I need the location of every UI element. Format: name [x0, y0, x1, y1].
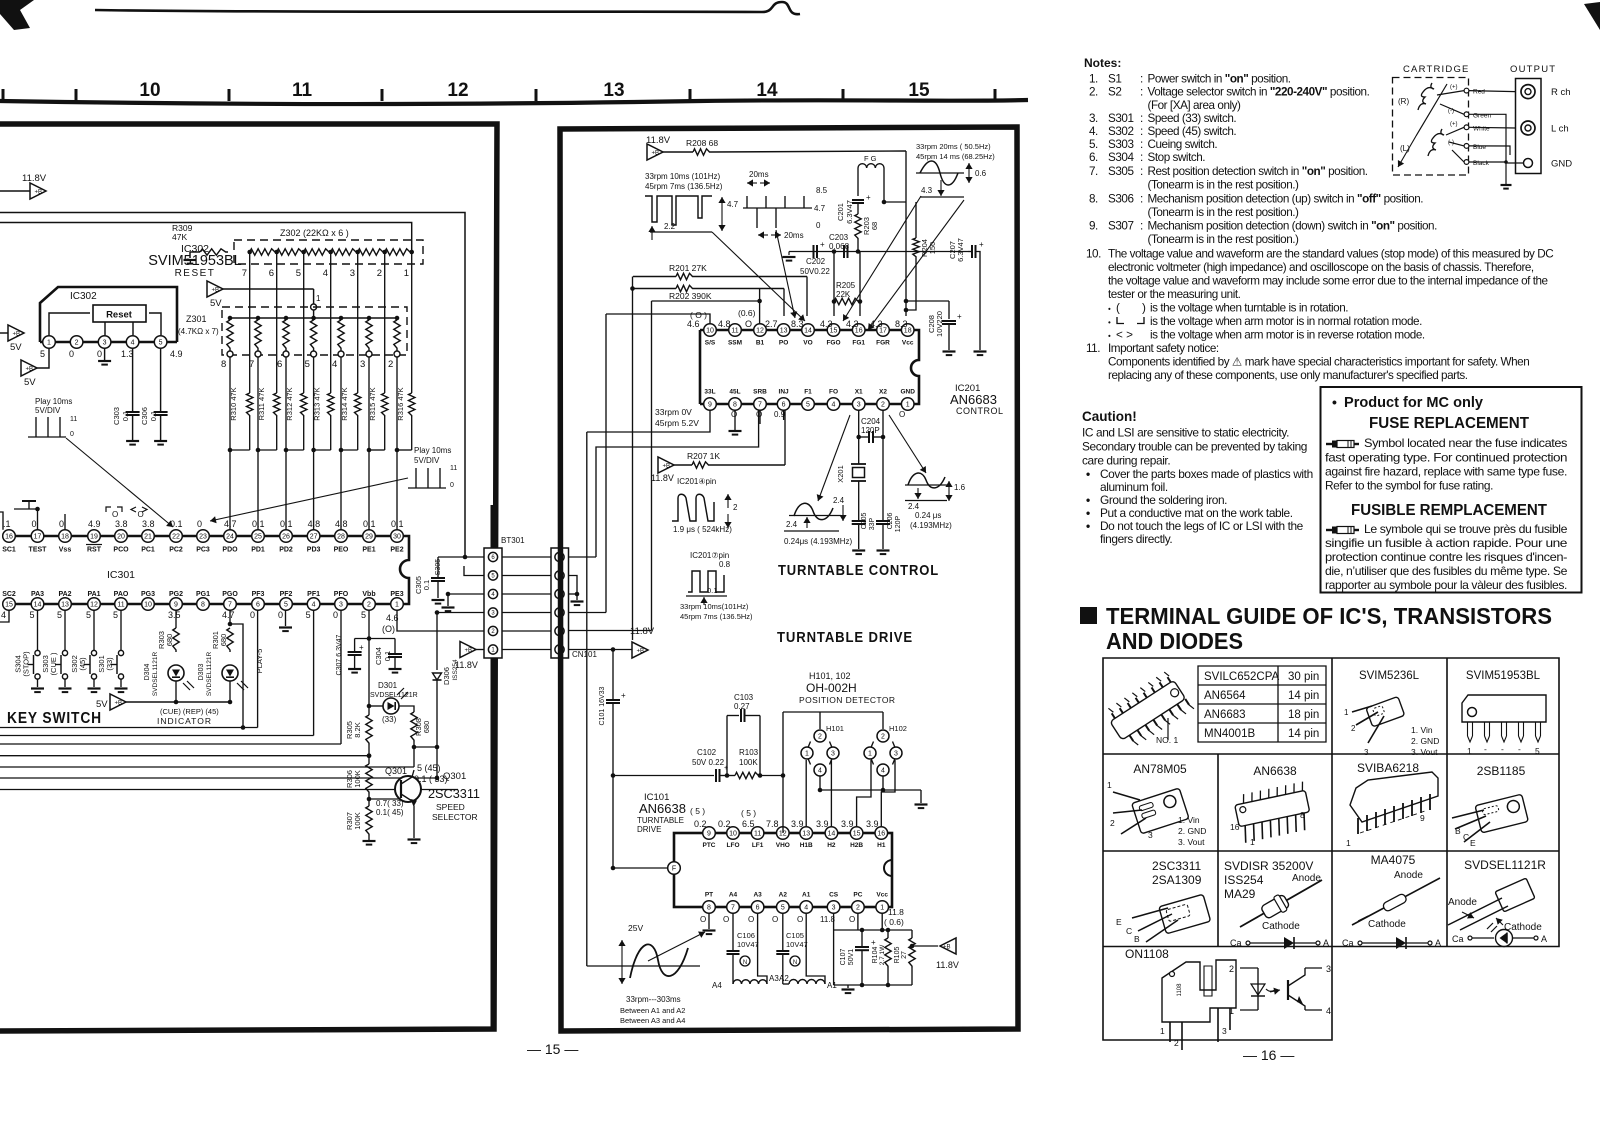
svg-text:fingers directly.: fingers directly.	[1100, 532, 1172, 546]
svg-text:Refer to the symbol for fuse r: Refer to the symbol for fuse rating.	[1325, 479, 1493, 493]
IC201 AN6683 turntable control IC body	[700, 329, 908, 332]
svg-text:2.4: 2.4	[833, 496, 845, 505]
svg-text:PE3: PE3	[390, 591, 403, 598]
IC201 pin 10 (S/S)	[704, 324, 717, 337]
IC101 pin 7 (A4)	[727, 901, 740, 914]
svg-text:Between A1 and A2: Between A1 and A2	[620, 1006, 685, 1015]
svg-text:Green: Green	[1473, 112, 1491, 119]
svg-text:R103: R103	[739, 748, 759, 757]
svg-text:AN6564: AN6564	[1204, 690, 1246, 702]
IC201 pin 8 (45L)	[729, 398, 742, 411]
thick cable (BT301)	[491, 505, 496, 548]
svg-text:3: 3	[1326, 964, 1331, 974]
svg-text:BT301: BT301	[501, 536, 525, 545]
IC301 pin 14 (PA3)	[31, 598, 44, 611]
svg-text:4: 4	[1326, 1006, 1331, 1016]
svg-text:20: 20	[117, 534, 125, 541]
svg-text:2: 2	[1174, 1038, 1179, 1048]
IC101 pin 14 (H2)	[825, 827, 838, 840]
pointer line	[818, 415, 850, 501]
svg-text::: :	[1140, 165, 1143, 178]
svg-text:H101: H101	[826, 724, 844, 733]
svg-text:5: 5	[57, 610, 62, 620]
svg-text:2SC3311: 2SC3311	[428, 786, 480, 801]
svg-text:9: 9	[707, 831, 711, 838]
svg-text::: :	[1140, 138, 1143, 151]
svg-text:AN6683: AN6683	[1204, 709, 1246, 721]
cartridge coil R	[1418, 83, 1434, 110]
IC301 pin 23 (PC3)	[197, 530, 210, 543]
svg-text:0: 0	[816, 221, 821, 230]
svg-text:SRB: SRB	[753, 389, 767, 396]
svg-text:SELECTOR: SELECTOR	[432, 812, 478, 822]
IC302 pin 3	[98, 336, 111, 349]
svg-text:S307: S307	[1108, 220, 1134, 233]
svg-text:3: 3	[103, 340, 107, 347]
svg-text:10V47: 10V47	[737, 940, 759, 949]
IC301 pin 4 (PF1)	[307, 598, 320, 611]
svg-text::: :	[1140, 220, 1143, 233]
svg-text:0.8: 0.8	[719, 560, 731, 569]
svg-text:0: 0	[69, 349, 74, 359]
svg-text:8.3: 8.3	[895, 319, 908, 329]
svg-text:8.3: 8.3	[791, 319, 804, 329]
svg-text:5: 5	[30, 610, 35, 620]
svg-text:23: 23	[199, 534, 207, 541]
wire	[819, 776, 821, 790]
svg-text:PE2: PE2	[390, 547, 403, 554]
svg-text:1: 1	[47, 340, 51, 347]
IC101 pin 10 (LFO)	[727, 827, 740, 840]
svg-text:F: F	[672, 866, 676, 873]
svg-text:ISS254: ISS254	[1224, 873, 1264, 887]
svg-text:3: 3	[831, 751, 835, 758]
IC201 pin 5 (F1)	[802, 398, 815, 411]
svg-text:O: O	[899, 410, 905, 419]
svg-text:N: N	[743, 960, 747, 966]
svg-text:0.7( 33): 0.7( 33)	[376, 799, 404, 808]
svg-text:C201: C201	[836, 203, 845, 221]
svg-text:PD1: PD1	[251, 547, 265, 554]
wire	[569, 556, 597, 558]
svg-text:+B: +B	[637, 649, 645, 655]
wire	[789, 251, 968, 253]
CN101 pin 4	[555, 589, 564, 598]
svg-text:0.1: 0.1	[391, 519, 404, 529]
wire	[37, 349, 49, 368]
svg-text:0: 0	[70, 431, 74, 438]
svg-text:+B: +B	[13, 332, 21, 338]
Product for MC only box	[1321, 387, 1582, 593]
svg-text:27: 27	[310, 534, 318, 541]
svg-text:CONTROL: CONTROL	[956, 406, 1004, 416]
svg-text:PFO: PFO	[334, 591, 349, 598]
svg-text:H2B: H2B	[850, 842, 863, 849]
IC201 pin 16 (FG1)	[852, 324, 865, 337]
svg-text:Q301: Q301	[385, 766, 407, 776]
svg-text:POSITION DETECTOR: POSITION DETECTOR	[799, 695, 895, 705]
svg-text:4.3: 4.3	[846, 319, 859, 329]
ruler tick	[2, 89, 5, 101]
svg-text:13: 13	[802, 831, 810, 838]
svg-text:5: 5	[305, 359, 310, 370]
CN101 pin 2	[555, 626, 564, 635]
IC302 reset box	[93, 305, 146, 322]
svg-text:(STOP): (STOP)	[22, 651, 31, 677]
svg-text:9.: 9.	[1089, 220, 1098, 233]
svg-text:3: 3	[339, 602, 343, 609]
svg-text:2: 2	[367, 602, 371, 609]
IC302 pin 4	[126, 336, 139, 349]
svg-text:electronic voltmeter (high imp: electronic voltmeter (high impedance) an…	[1108, 261, 1534, 274]
IC301 pin 6 (PF3)	[252, 598, 265, 611]
svg-text:•: •	[1108, 331, 1111, 340]
IC301 pin 29 (PE1)	[363, 530, 376, 543]
BT301 pin 4	[488, 589, 497, 598]
svg-text:SVIBA6218: SVIBA6218	[1357, 761, 1419, 775]
svg-text:11.8V: 11.8V	[455, 660, 478, 670]
IC201 pin 18 (Vcc)	[901, 324, 914, 337]
svg-text:O: O	[756, 410, 762, 419]
svg-text:30: 30	[393, 534, 401, 541]
IC201 pin 1 (GND)	[901, 398, 914, 411]
svg-text:R202 390K: R202 390K	[669, 291, 712, 301]
svg-text:+B: +B	[663, 464, 671, 470]
svg-text:INDICATOR: INDICATOR	[157, 716, 212, 726]
svg-text:S305: S305	[1108, 165, 1134, 178]
svg-text:— 16 —: — 16 —	[1243, 1047, 1294, 1063]
svg-text:INJ: INJ	[779, 389, 790, 396]
connector CN101	[551, 548, 569, 658]
svg-text:Mechanism position detection (: Mechanism position detection (down) swit…	[1148, 220, 1438, 233]
svg-text:0.24 μs: 0.24 μs	[915, 511, 941, 520]
svg-text:2.: 2.	[1089, 86, 1098, 99]
svg-text:is the voltage when turntable: is the voltage when turntable is in rota…	[1150, 301, 1348, 314]
svg-text:15: 15	[853, 831, 861, 838]
svg-text:14 pin: 14 pin	[1288, 728, 1319, 740]
svg-text:+: +	[871, 938, 876, 947]
svg-text:5: 5	[284, 602, 288, 609]
svg-text:7.: 7.	[1089, 165, 1098, 178]
ruler tick	[75, 89, 78, 101]
svg-text:PE1: PE1	[362, 547, 375, 554]
IC101 pin 6 (A3)	[751, 901, 764, 914]
wire	[613, 867, 667, 869]
svg-text:R205: R205	[836, 281, 856, 290]
wire	[569, 612, 607, 614]
opto transistor	[1287, 980, 1289, 1000]
svg-text:A4: A4	[712, 981, 722, 990]
svg-text:LFO: LFO	[727, 842, 740, 849]
svg-text::: :	[1140, 125, 1143, 138]
svg-text:(33): (33)	[105, 657, 114, 671]
svg-text:Play 10ms: Play 10ms	[414, 446, 451, 455]
wire (PE3 pin1 to BT301)	[397, 610, 484, 631]
IC301 pin 30 (PE2)	[391, 530, 404, 543]
svg-text:Power switch in "on" position.: Power switch in "on" position.	[1148, 73, 1291, 86]
output jack GND	[1524, 159, 1533, 168]
svg-text:TURNTABLE DRIVE: TURNTABLE DRIVE	[777, 629, 913, 646]
svg-text:C107: C107	[840, 949, 847, 966]
svg-text:+B: +B	[212, 288, 220, 294]
IC302 pin 5	[154, 336, 167, 349]
svg-text:Speed (45) switch.: Speed (45) switch.	[1148, 125, 1237, 138]
svg-text:MN4001B: MN4001B	[1204, 728, 1255, 740]
cartridge stylus arrow	[1416, 84, 1447, 136]
wire	[905, 151, 907, 316]
svg-text:50V 0.22: 50V 0.22	[692, 758, 725, 767]
svg-text:Vbb: Vbb	[362, 591, 375, 598]
svg-text:(4.7KΩ x 7): (4.7KΩ x 7)	[178, 327, 219, 336]
svg-text:S301: S301	[1108, 112, 1134, 125]
resistor R314 47K	[355, 393, 361, 417]
svg-text:•: •	[1086, 506, 1090, 520]
svg-text:replacing any of these compone: replacing any of these components, use o…	[1108, 369, 1468, 382]
svg-text:NO. 1: NO. 1	[1156, 735, 1178, 745]
svg-text:IC201⑦pin: IC201⑦pin	[690, 551, 729, 560]
svg-text:0: 0	[278, 610, 283, 620]
svg-text:25V: 25V	[628, 923, 643, 933]
IC301 pin 18 (Vss)	[59, 530, 72, 543]
svg-text:Red: Red	[1473, 89, 1485, 96]
svg-text:3: 3	[894, 751, 898, 758]
svg-text:F1: F1	[804, 389, 812, 396]
svg-text:10: 10	[139, 80, 160, 101]
svg-text:PF1: PF1	[307, 591, 320, 598]
svg-text:PTC: PTC	[703, 842, 716, 849]
svg-text:10: 10	[729, 831, 737, 838]
ruler tick	[228, 89, 231, 101]
svg-text:680: 680	[422, 721, 431, 734]
svg-text:11: 11	[117, 602, 124, 609]
svg-text:2SA1309: 2SA1309	[1152, 873, 1202, 887]
IC301 pin 27 (PD3)	[307, 530, 320, 543]
svg-text:TEST: TEST	[29, 547, 48, 554]
svg-text:3: 3	[857, 402, 861, 409]
svg-text:1: 1	[395, 602, 399, 609]
IC101 pin 4 (A1)	[800, 901, 813, 914]
switch S301 (33)	[120, 610, 122, 651]
svg-text:11.8V: 11.8V	[936, 960, 959, 970]
svg-text:( 0.6): ( 0.6)	[884, 917, 904, 927]
svg-text:2: 2	[733, 503, 738, 512]
svg-text:5V: 5V	[96, 699, 108, 710]
ruler tick	[535, 89, 538, 101]
svg-text:is the voltage when arm motor: is the voltage when arm motor is in norm…	[1150, 315, 1422, 328]
IC301 pin 5 (PF2)	[280, 598, 293, 611]
IC101 pin 12 (VHO)	[777, 827, 790, 840]
svg-text:AN78M05: AN78M05	[1133, 762, 1187, 776]
IC101 pin 3 (CS)	[827, 901, 840, 914]
svg-text:R105: R105	[894, 947, 901, 964]
svg-text:1: 1	[1160, 1026, 1165, 1036]
svg-text:14: 14	[804, 328, 812, 335]
svg-text:1.3: 1.3	[121, 349, 134, 359]
svg-text:(For [XA] area only): (For [XA] area only)	[1148, 99, 1242, 112]
wire (PFO pin3)	[340, 610, 342, 744]
svg-text::: :	[1140, 112, 1143, 125]
svg-text:22: 22	[172, 534, 180, 541]
svg-text:Anode: Anode	[1394, 870, 1423, 881]
part number table	[1198, 666, 1326, 742]
svg-text:26: 26	[282, 534, 290, 541]
svg-text:2: 2	[75, 340, 79, 347]
wire	[759, 410, 761, 424]
svg-text:11.8: 11.8	[888, 907, 904, 917]
svg-text:0.068: 0.068	[829, 242, 850, 251]
motor coil A2-A1	[789, 980, 825, 985]
svg-text:5: 5	[361, 610, 366, 620]
svg-text:Cathode: Cathode	[1262, 921, 1300, 932]
svg-text:4.7: 4.7	[727, 200, 739, 209]
svg-text:14: 14	[828, 831, 836, 838]
svg-text:Z302 (22KΩ x 6 ): Z302 (22KΩ x 6 )	[280, 228, 349, 238]
svg-text:PD2: PD2	[279, 547, 293, 554]
IC101 pin 8 (PT)	[703, 901, 716, 914]
svg-text:2: 2	[1110, 818, 1115, 828]
svg-text:O: O	[731, 410, 737, 419]
svg-text:33rpm---303ms: 33rpm---303ms	[626, 995, 681, 1004]
svg-text:Important safety notice:: Important safety notice:	[1108, 342, 1219, 355]
svg-text:(0.6): (0.6)	[738, 308, 756, 318]
svg-text:+B: +B	[35, 190, 43, 196]
svg-text:Voltage selector switch in "22: Voltage selector switch in "220-240V" po…	[1148, 86, 1370, 99]
svg-text:Rest position detection switch: Rest position detection switch in "on" p…	[1148, 165, 1368, 178]
wire	[569, 630, 652, 632]
svg-text:SVIM51953BL: SVIM51953BL	[1466, 670, 1541, 682]
svg-text:8: 8	[221, 359, 226, 370]
svg-text:+B: +B	[652, 151, 660, 157]
IC301 pin 11 (PAO)	[115, 598, 128, 611]
pointer line	[648, 932, 705, 961]
svg-text:SVDSEL1121R: SVDSEL1121R	[206, 652, 213, 697]
resistor R303 680	[175, 610, 177, 628]
wire	[782, 712, 784, 833]
svg-text:1: 1	[316, 294, 321, 303]
svg-text:PDO: PDO	[222, 547, 238, 554]
svg-text:3.8: 3.8	[115, 519, 128, 529]
svg-text:9: 9	[174, 602, 178, 609]
svg-text:X2: X2	[879, 389, 887, 396]
svg-text:2. GND: 2. GND	[1178, 826, 1206, 836]
svg-text:TERMINAL GUIDE OF IC'S, TRANSI: TERMINAL GUIDE OF IC'S, TRANSISTORS	[1106, 603, 1552, 629]
pointer line	[712, 232, 805, 321]
ruler tick	[842, 89, 845, 101]
svg-text:O: O	[745, 319, 752, 329]
svg-text:VO: VO	[803, 340, 812, 347]
svg-text:17: 17	[34, 534, 42, 541]
wire	[783, 983, 789, 985]
svg-text:0: 0	[450, 482, 454, 489]
svg-text:100K: 100K	[353, 770, 362, 788]
svg-text:11.8V: 11.8V	[22, 173, 47, 184]
svg-text:1. Vin: 1. Vin	[1411, 725, 1433, 735]
svg-text:(CUE) (REP) (45): (CUE) (REP) (45)	[160, 707, 219, 716]
resistor R312 47K	[301, 393, 307, 417]
svg-text:9: 9	[1420, 813, 1425, 823]
svg-text:3.9: 3.9	[791, 819, 804, 829]
svg-text:FO: FO	[829, 389, 838, 396]
svg-text:): )	[1142, 301, 1146, 314]
svg-text:D303: D303	[198, 664, 205, 681]
svg-text:2.7: 2.7	[765, 319, 778, 329]
svg-text:33rpm 20ms ( 50.5Hz): 33rpm 20ms ( 50.5Hz)	[916, 142, 991, 151]
IC101 pin 9 (PTC)	[703, 827, 716, 840]
wire (Z302 taps down)	[249, 252, 251, 393]
wire (column to IC301)	[368, 357, 370, 450]
IC301 CMOS controller body	[3, 535, 397, 538]
svg-text:•: •	[1086, 467, 1090, 481]
svg-text:1: 1	[1250, 837, 1255, 847]
svg-text:0.1: 0.1	[170, 519, 183, 529]
svg-text:21: 21	[144, 534, 152, 541]
svg-text:(Tonearm is in the rest positi: (Tonearm is in the rest position.)	[1148, 206, 1300, 219]
svg-text:1: 1	[1229, 1006, 1234, 1016]
pointer line	[843, 196, 921, 321]
svg-text:(: (	[1116, 301, 1120, 314]
resistor R204 150	[915, 202, 917, 238]
svg-text:( O ): ( O )	[690, 310, 707, 320]
BT301 pin 1	[488, 645, 497, 654]
IC101 pin 13 (H1B)	[800, 827, 813, 840]
svg-text:8.2K: 8.2K	[353, 722, 362, 737]
wire (A1)	[806, 913, 825, 984]
svg-text:13: 13	[61, 602, 69, 609]
fuse symbol	[1326, 443, 1332, 445]
svg-text:11: 11	[70, 416, 77, 423]
svg-text:2.2: 2.2	[664, 222, 676, 231]
svg-text:5: 5	[296, 268, 301, 279]
svg-text:18: 18	[61, 534, 69, 541]
svg-text:(Tonearm is in the rest positi: (Tonearm is in the rest position.)	[1148, 179, 1300, 192]
CN101 pin 1	[555, 645, 564, 654]
svg-text:4.7: 4.7	[222, 610, 235, 620]
svg-text:8: 8	[733, 402, 737, 409]
svg-text:-: -	[1518, 744, 1521, 754]
resistor R315 47K	[382, 393, 388, 417]
svg-text:28: 28	[337, 534, 345, 541]
svg-text:PAO: PAO	[114, 591, 129, 598]
wire (CS/PC rail)	[833, 913, 835, 930]
power +B 5V (Z301 feed)	[207, 281, 223, 297]
svg-text:15: 15	[908, 80, 930, 101]
svg-text:680: 680	[219, 634, 228, 647]
svg-text:4: 4	[804, 905, 808, 912]
fuse symbol	[1326, 529, 1332, 531]
svg-text:White: White	[1473, 125, 1490, 132]
svg-text:4.3: 4.3	[921, 186, 933, 195]
pointer line	[66, 438, 173, 527]
svg-text:33rpm 10ms (101Hz): 33rpm 10ms (101Hz)	[645, 172, 720, 181]
svg-text:100K: 100K	[353, 812, 362, 830]
svg-text:PF3: PF3	[252, 591, 265, 598]
svg-text:A4: A4	[729, 892, 738, 899]
svg-text:2: 2	[881, 402, 885, 409]
svg-text:•: •	[1086, 519, 1090, 533]
resistor R313 47K	[328, 393, 334, 417]
wire	[223, 288, 314, 290]
svg-text:IC201④pin: IC201④pin	[677, 477, 716, 486]
svg-text:45rpm 14 ms (68.25Hz): 45rpm 14 ms (68.25Hz)	[916, 152, 995, 161]
svg-text:5: 5	[113, 610, 118, 620]
IC302 body	[40, 287, 177, 342]
wire	[49, 313, 90, 335]
motor coil A4-A3	[733, 980, 767, 984]
inner boundary line	[0, 213, 465, 558]
svg-text:CARTRIDGE: CARTRIDGE	[1403, 64, 1470, 75]
svg-text:2: 2	[377, 268, 382, 279]
svg-text:5: 5	[806, 402, 810, 409]
